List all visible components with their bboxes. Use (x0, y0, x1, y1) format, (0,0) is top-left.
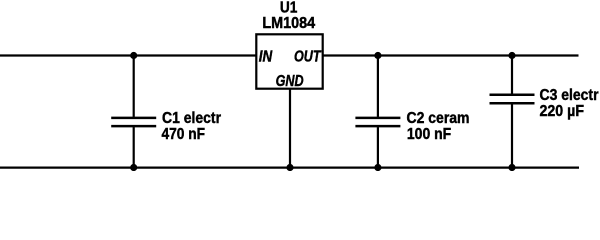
svg-text:IN: IN (259, 49, 273, 66)
svg-text:C3 electr: C3 electr (540, 87, 599, 104)
svg-text:LM1084: LM1084 (262, 15, 315, 32)
svg-text:C1 electr: C1 electr (162, 110, 221, 127)
svg-text:OUT: OUT (294, 49, 322, 66)
svg-text:470 nF: 470 nF (162, 126, 206, 143)
svg-text:GND: GND (276, 73, 304, 90)
svg-text:C2 ceram: C2 ceram (407, 110, 470, 127)
svg-text:100 nF: 100 nF (407, 126, 451, 143)
svg-text:U1: U1 (280, 0, 298, 16)
svg-text:220 µF: 220 µF (540, 103, 585, 120)
